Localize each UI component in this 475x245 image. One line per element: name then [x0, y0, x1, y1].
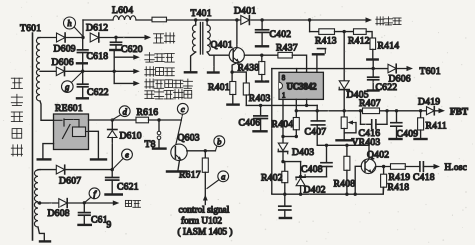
wire D405 to rail	[343, 90, 345, 111]
resistor R414	[370, 38, 399, 52]
wire bracket vertical	[113, 51, 115, 83]
diode D612	[86, 23, 108, 42]
node h	[64, 17, 84, 37]
resistor R438	[238, 55, 265, 74]
diode D610	[108, 120, 142, 169]
node g	[62, 72, 83, 92]
ground R401	[227, 103, 238, 105]
wire arm lower	[114, 82, 134, 84]
ground transformer bottom	[40, 240, 50, 242]
resistor R412	[348, 29, 370, 47]
UC3842 pin8 top bar symbol	[313, 49, 326, 73]
wire winding lower top lead	[38, 169, 40, 171]
ground T401 primary	[185, 71, 196, 73]
wire line drive (D606 line)	[40, 70, 135, 72]
wire R419 to C418	[405, 166, 420, 168]
wire winding bottom to ground	[38, 227, 44, 240]
label 行扫描 (line scan)	[376, 17, 401, 25]
junction C406	[259, 104, 262, 107]
ground RE601 left	[38, 158, 51, 160]
junction T8 connector	[157, 118, 160, 121]
svg-text:T601: T601	[420, 66, 441, 77]
arrow to H.osc	[434, 164, 441, 169]
wire lineA start	[83, 19, 113, 21]
transistor Q603	[171, 144, 187, 160]
capacitor C406	[239, 105, 268, 131]
junction pin3 on sense line	[305, 104, 308, 107]
label Q402	[367, 150, 389, 161]
junction node B	[281, 160, 284, 163]
svg-text:D612: D612	[86, 23, 108, 34]
resistor R437	[276, 43, 298, 59]
svg-text:b: b	[217, 136, 221, 146]
svg-text:R418: R418	[388, 182, 410, 193]
junction C409	[395, 109, 398, 112]
junction R411	[419, 109, 422, 112]
label control signal	[179, 206, 230, 216]
svg-text:C416: C416	[359, 128, 381, 139]
label RE601	[55, 103, 83, 114]
svg-text:R437: R437	[276, 43, 298, 54]
svg-text:D606: D606	[389, 74, 411, 85]
svg-text:C621: C621	[117, 182, 139, 193]
wire resistor to T401/D401	[167, 19, 241, 21]
junction Q401 collector on lineA	[235, 18, 238, 21]
resistor R616	[136, 107, 158, 123]
svg-text:D609: D609	[54, 44, 76, 55]
resistor R408	[334, 144, 356, 195]
svg-text:T401: T401	[191, 8, 212, 19]
T401 core	[200, 23, 202, 55]
svg-text:C618: C618	[87, 51, 109, 62]
junction f node	[83, 201, 86, 204]
svg-text:D419: D419	[418, 97, 440, 108]
svg-text:RE601: RE601	[55, 103, 83, 114]
wire D607 line	[40, 169, 112, 171]
resistor R402	[261, 162, 288, 195]
wire sense line R403 to C407 corner	[246, 104, 317, 106]
svg-text:h: h	[67, 18, 71, 28]
junction D610 top	[111, 118, 114, 121]
resistor R403	[243, 83, 270, 104]
wire Q402 base	[355, 166, 361, 194]
node d	[113, 106, 130, 119]
arrow to 视放	[145, 35, 152, 40]
wire RE601 left-bottom to ground	[43, 144, 54, 159]
zener diode D405	[339, 81, 369, 101]
svg-text:C406: C406	[239, 118, 261, 129]
svg-text:Q603: Q603	[178, 133, 200, 144]
wire C418 to H.osc	[423, 166, 435, 168]
junction node pin1/R404	[281, 135, 298, 138]
wire Q401 emitter down	[232, 62, 239, 72]
wire R414 to bar	[372, 49, 374, 58]
wire R413 line left	[310, 31, 319, 33]
series resistor (unlabeled) after L604	[152, 17, 167, 22]
label 开关变压器 (switching transformer, vertical)	[11, 78, 22, 156]
wire D608 line	[38, 202, 113, 204]
label Q401	[211, 40, 233, 51]
resistor R419	[389, 164, 411, 183]
arrow 行电压	[133, 81, 140, 86]
capacitor C622 (left)	[77, 71, 109, 98]
label T401	[191, 8, 212, 19]
wire Q401 to R437	[244, 54, 278, 56]
wire collector diagonal to Q603	[176, 120, 182, 145]
svg-text:9: 9	[107, 221, 112, 231]
svg-text:C402: C402	[270, 29, 292, 40]
svg-text:C418: C418	[413, 172, 435, 183]
label IASM 1405	[178, 227, 233, 238]
diode D608	[48, 199, 70, 219]
wire R437 to IC pin stub	[292, 55, 306, 72]
svg-text:1: 1	[282, 93, 285, 100]
resistor R411	[415, 111, 447, 139]
junction winding tap	[38, 201, 41, 204]
wire R616 to c corner	[149, 119, 182, 121]
capacitor C618	[77, 38, 108, 71]
T401 primary stub	[194, 18, 197, 25]
wire D612 to C620 junction	[100, 37, 117, 39]
svg-text:D610: D610	[120, 131, 142, 142]
junction R438 top	[260, 54, 263, 57]
svg-text:c: c	[181, 104, 185, 114]
svg-text:R412: R412	[348, 36, 370, 47]
wire R401 to ground	[232, 95, 234, 104]
svg-text:C407: C407	[305, 127, 327, 138]
label T601 right	[420, 66, 441, 77]
capacitor C621	[106, 170, 139, 195]
junction feed to R413 line	[308, 18, 311, 21]
UC3842 pin2 wire to rail	[295, 99, 298, 112]
wire RE601 to R616 line	[89, 119, 137, 121]
label H.osc	[445, 162, 467, 172]
svg-text:R438: R438	[238, 63, 260, 74]
T401 secondary winding	[207, 25, 210, 52]
transistor Q401	[229, 48, 244, 63]
node b	[214, 136, 225, 151]
arrow to 行扫描	[366, 17, 373, 22]
wire RE601 right-mid to ground	[89, 131, 99, 158]
capacitor C418	[413, 162, 435, 183]
resistor R413	[315, 29, 337, 47]
svg-text:L604: L604	[112, 5, 133, 16]
arrow to T601 right	[407, 66, 414, 71]
wire node B to D402	[283, 161, 301, 163]
capacitor C620	[110, 37, 142, 55]
zener diode D402	[296, 175, 326, 196]
junction D405 top	[343, 30, 346, 33]
wire Q401 collector	[236, 20, 238, 48]
junction C408/D402	[299, 175, 302, 178]
resistor R418	[381, 167, 410, 194]
svg-text:R404: R404	[272, 119, 294, 130]
node c	[177, 103, 188, 120]
capacitor under rail	[279, 194, 291, 218]
diode D607	[56, 165, 81, 186]
arrow 行激励	[133, 69, 140, 74]
label form U102	[181, 216, 222, 227]
wire line to T601 terminal	[272, 68, 410, 70]
svg-text:R402: R402	[261, 173, 283, 184]
diode D401	[234, 6, 256, 25]
wire down from lineA to R413 line	[309, 20, 311, 32]
ground VR403	[337, 133, 352, 140]
svg-text:C622: C622	[87, 87, 109, 98]
svg-text:R408: R408	[334, 179, 356, 190]
ground T401 secondary	[208, 71, 219, 73]
svg-text:D606: D606	[52, 57, 74, 68]
svg-text:control signal: control signal	[179, 206, 230, 216]
wire L604 to series resistor	[136, 19, 152, 21]
wire Q402 emitter line	[376, 166, 391, 168]
capacitor C407	[305, 121, 327, 138]
wire emitter branch to R403	[232, 72, 246, 83]
svg-text:C61: C61	[91, 215, 108, 226]
wire D402 column upper	[300, 162, 302, 177]
resistor R401	[208, 82, 236, 95]
wire D405 column	[343, 32, 345, 81]
junction bracket on drive line	[113, 70, 116, 73]
T401 secondary bottom lead	[207, 52, 229, 55]
T401 primary winding	[192, 25, 195, 52]
wire Q603 collector node to b	[187, 150, 216, 152]
ground R438	[256, 80, 268, 82]
svg-text:R414: R414	[378, 41, 400, 52]
wire R404 bottom bar	[283, 136, 296, 138]
resistor R617	[179, 151, 208, 181]
svg-text:Q401: Q401	[211, 40, 233, 51]
stub to UC3842 top pin7	[296, 69, 298, 73]
connection bar under R414	[367, 58, 377, 60]
junction e node	[111, 168, 114, 171]
wire D609 to junction h	[66, 37, 83, 39]
svg-text:R403: R403	[249, 93, 271, 104]
capacitor C408	[301, 145, 332, 177]
T401 primary bottom lead	[191, 52, 196, 71]
junction at h line	[81, 36, 84, 39]
wire arm to field scan	[114, 56, 134, 58]
UC3842 pin1 wire down	[282, 99, 284, 136]
T601 winding upper bottom lead	[40, 101, 54, 120]
wire R438 to ground	[261, 75, 263, 81]
resistor R404	[272, 111, 300, 137]
junction Q401 emitter node	[230, 70, 233, 73]
wire line from winding to D609	[38, 37, 56, 39]
junction C402	[260, 18, 263, 21]
wire R413 to R412	[335, 31, 354, 33]
svg-text:T601: T601	[20, 23, 41, 34]
diode D606 (left)	[52, 57, 74, 76]
label 行电压自动 (line voltage auto)	[145, 79, 193, 88]
svg-text:UC3842: UC3842	[287, 81, 318, 91]
wire D402 to rail	[300, 186, 302, 194]
zener diode D403	[278, 137, 314, 159]
label 灯丝 (filament)	[125, 200, 140, 207]
wire D401 to line right	[251, 19, 368, 21]
label 行激励 (line drive)	[145, 67, 175, 77]
diode D419	[418, 97, 440, 115]
wire C407 to feedback line	[317, 125, 369, 145]
ground T401 secondary stem	[213, 55, 215, 71]
wire long vertical from pin7 line	[271, 69, 273, 194]
label 调节与控制 (regulation and control)	[145, 90, 192, 99]
ground Q603	[167, 170, 186, 172]
wire bottom rail	[272, 187, 384, 194]
junction R414/C622 on T601 line	[372, 67, 375, 70]
svg-text:D608: D608	[48, 208, 70, 219]
svg-text:g: g	[65, 82, 69, 92]
relay RE601	[41, 114, 89, 150]
transistor Q402	[361, 159, 376, 174]
wire R617 to control arrow	[204, 172, 206, 204]
junction C416 right	[385, 109, 388, 112]
junction D402 rail	[299, 193, 302, 196]
UC3842 pin3 wire elbow	[306, 99, 308, 105]
capacitor C409	[390, 111, 419, 140]
junction C618 bottom	[81, 70, 84, 73]
svg-text:D403: D403	[292, 147, 314, 158]
wire Q603 emitter to ground	[178, 160, 180, 170]
wire to video arrow	[116, 36, 145, 38]
capacitor C416	[359, 111, 388, 139]
wire corner down to C407	[316, 105, 318, 121]
wire junction h up	[82, 20, 84, 37]
wire bar to T601 line	[372, 61, 374, 69]
T601 secondary winding lower	[34, 170, 38, 227]
junction C407 line on rail	[316, 109, 319, 112]
T601 secondary winding upper	[36, 38, 40, 102]
svg-text:8: 8	[282, 75, 286, 82]
svg-text:R413: R413	[315, 36, 337, 47]
T401 secondary stub	[205, 18, 208, 25]
capacitor C619	[79, 203, 112, 231]
wire main rail	[296, 110, 441, 112]
node f	[84, 188, 100, 203]
label 场扫描 (field scan)	[145, 53, 175, 63]
junction R408 rail	[345, 193, 348, 196]
svg-text:form U102: form U102	[181, 216, 222, 227]
label FBT	[450, 106, 468, 116]
svg-text:FBT: FBT	[450, 106, 468, 116]
label Q603	[178, 133, 200, 144]
wire R403 down to sense line	[245, 95, 247, 105]
arrow to 灯丝	[113, 200, 120, 205]
junction C416 left	[359, 109, 362, 112]
node e	[112, 149, 132, 170]
svg-text:d: d	[123, 106, 128, 116]
junction R418 top	[382, 165, 385, 168]
junction C408 top	[325, 144, 328, 147]
svg-text:e: e	[125, 150, 129, 160]
potentiometer VR403	[341, 111, 380, 148]
svg-text:C408: C408	[301, 164, 323, 175]
junction VR403 top	[343, 109, 346, 112]
svg-text:D402: D402	[304, 185, 326, 196]
node a	[207, 171, 229, 189]
wire R412 corner to R414	[366, 32, 372, 38]
wire Q402 collector	[368, 145, 370, 159]
arrow control signal up	[203, 195, 208, 201]
transformer T601 core	[32, 33, 34, 240]
resistor R407	[359, 98, 381, 114]
svg-text:R617: R617	[179, 170, 201, 181]
svg-text:a: a	[221, 171, 225, 181]
junction R402 rail	[283, 193, 286, 196]
wire D403 to node B	[282, 152, 284, 162]
arrow to FBT	[439, 108, 446, 113]
svg-text:T8: T8	[145, 139, 156, 150]
junction R617 top	[204, 149, 207, 152]
svg-text:C620: C620	[121, 44, 143, 55]
svg-text:R407: R407	[359, 98, 381, 109]
wire emitter to R401	[231, 72, 233, 81]
svg-text:D401: D401	[234, 6, 256, 17]
svg-text:R616: R616	[137, 107, 159, 118]
ground RE601 right	[91, 158, 106, 160]
capacitor C402	[256, 20, 292, 46]
diode D609	[54, 33, 76, 54]
svg-text:( IASM 1405 ): ( IASM 1405 )	[178, 227, 233, 238]
diode D606 (to T601)	[388, 64, 411, 84]
svg-text:H.osc: H.osc	[445, 162, 467, 172]
capacitor C622 (right)	[368, 69, 398, 94]
inductor L604	[112, 5, 136, 20]
junction C620 top	[114, 36, 117, 39]
svg-text:D607: D607	[59, 176, 81, 187]
svg-text:R419: R419	[389, 172, 411, 183]
svg-text:R401: R401	[208, 82, 230, 93]
label T601	[20, 23, 41, 34]
arrow 场扫描	[133, 55, 140, 60]
op-amp U1 UC3842 PWM IC	[279, 72, 323, 99]
label 视放 (video out)	[154, 33, 175, 43]
connector T8 to ground	[145, 120, 166, 150]
junction base rail	[354, 193, 357, 196]
